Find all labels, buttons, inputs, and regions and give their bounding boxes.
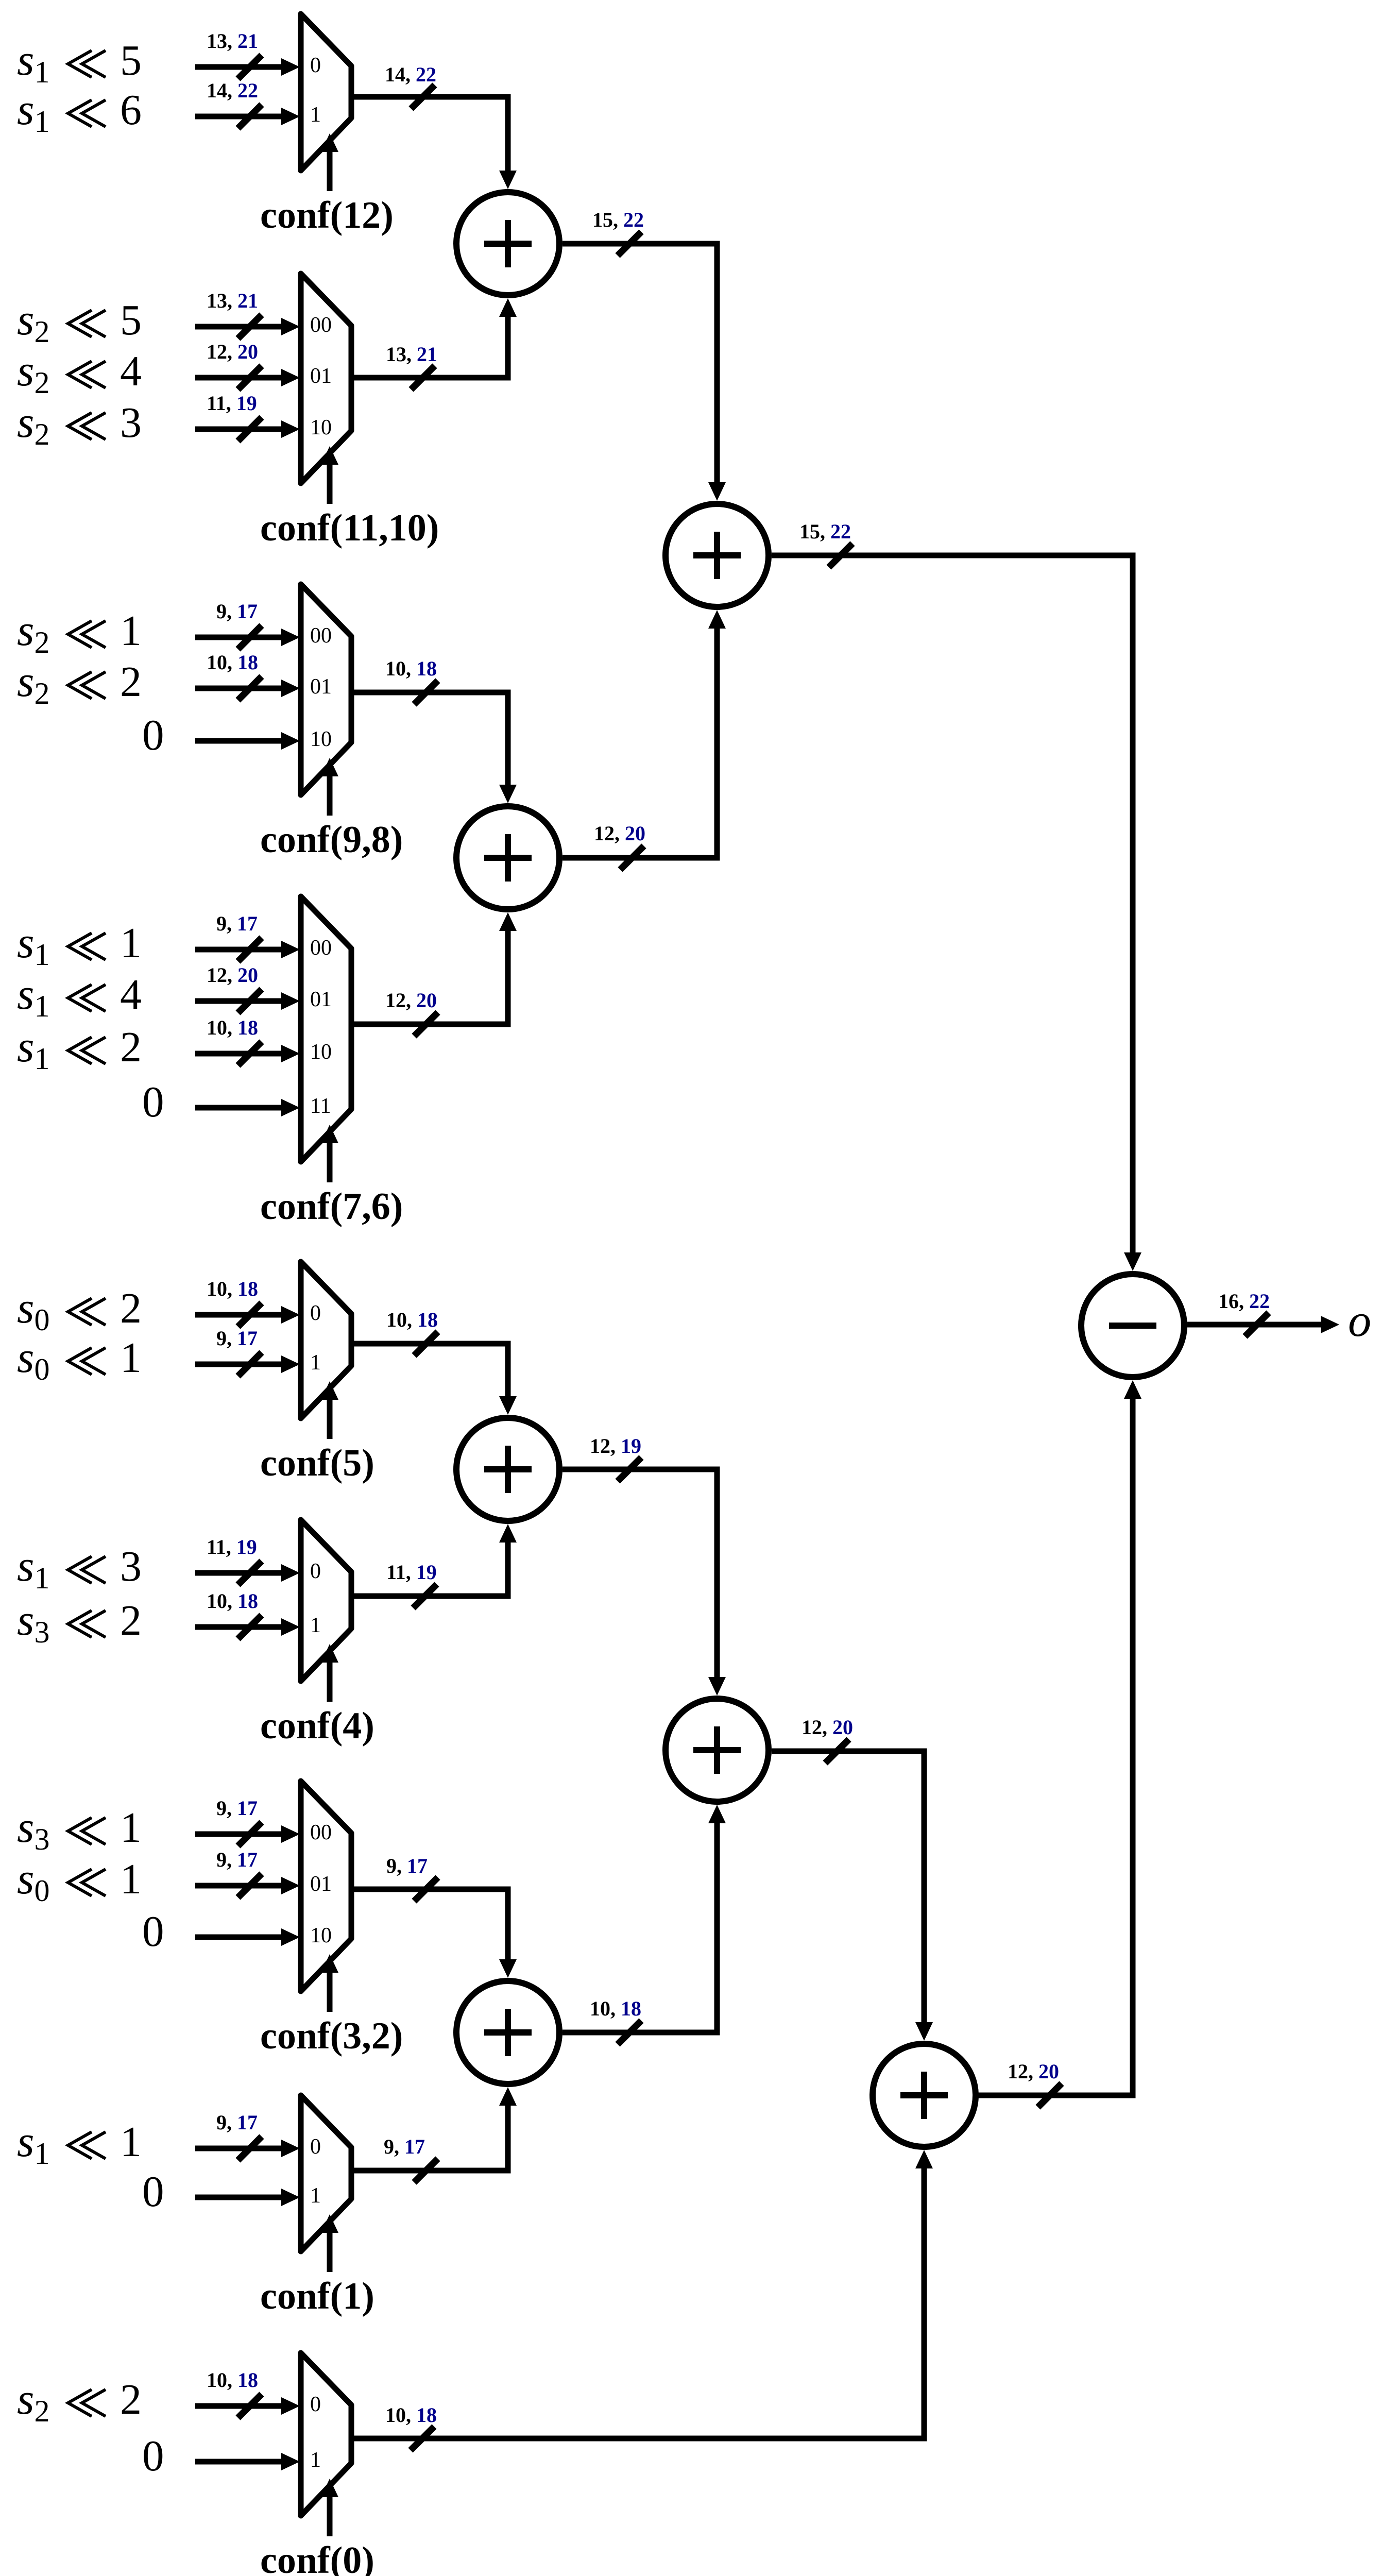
- bus slash input 1 of M3 conf(9,8): [238, 676, 262, 700]
- svg-text:s1: s1: [17, 84, 49, 139]
- mux M7 conf(3,2): [301, 1781, 351, 1991]
- svg-text:16, 22: 16, 22: [1218, 1290, 1270, 1313]
- svg-text:10: 10: [310, 416, 332, 439]
- svg-text:0: 0: [142, 2167, 164, 2216]
- wire input 2 of M7 conf(3,2): [195, 1935, 282, 1940]
- bus slash wire M5 out to A4 top: [414, 1332, 438, 1355]
- wire input 0 of M9 conf(0): [195, 2403, 282, 2409]
- bus slash input 0 of M7 conf(3,2): [238, 1822, 262, 1846]
- select input conf wire of M7 conf(3,2): [327, 1971, 333, 2012]
- adder A1: [456, 192, 559, 295]
- svg-text:2: 2: [120, 1284, 142, 1332]
- bus slash subtractor out: [1245, 1313, 1269, 1336]
- bus slash wire A3 out to A2 bottom: [620, 846, 644, 870]
- svg-text:9, 17: 9, 17: [216, 1327, 258, 1350]
- wire A3 out to A2 bottom: [562, 625, 717, 858]
- bus slash wire M8 out to A6 bottom: [414, 2159, 438, 2182]
- svg-text:13, 21: 13, 21: [386, 343, 437, 366]
- bus slash wire M3 out to A3 top: [414, 681, 438, 704]
- svg-text:s1: s1: [17, 35, 49, 89]
- wire input 3 of M4 conf(7,6): [195, 1105, 282, 1111]
- select input conf wire of M8 conf(1): [327, 2231, 333, 2272]
- svg-text:conf(4): conf(4): [260, 1705, 374, 1747]
- wire input 0 of M4 conf(7,6): [195, 947, 282, 953]
- svg-text:s2: s2: [17, 605, 49, 659]
- svg-text:12, 20: 12, 20: [207, 963, 258, 987]
- svg-text:o: o: [1348, 1295, 1371, 1346]
- select input conf wire of M6 conf(4): [327, 1660, 333, 1702]
- svg-text:0: 0: [142, 711, 164, 759]
- svg-text:11, 19: 11, 19: [207, 392, 257, 415]
- select input conf wire of M4 conf(7,6): [327, 1141, 333, 1182]
- bus slash wire A7 out to subtractor bottom: [1038, 2083, 1062, 2107]
- svg-text:2: 2: [120, 2376, 142, 2424]
- svg-text:00: 00: [310, 936, 332, 960]
- svg-text:15, 22: 15, 22: [799, 520, 851, 543]
- wire M8 out to A6 bottom: [351, 2103, 508, 2171]
- bus slash input 1 of M5 conf(5): [238, 1352, 262, 1376]
- svg-text:1: 1: [120, 1334, 142, 1382]
- svg-text:00: 00: [310, 624, 332, 648]
- svg-text:s2: s2: [17, 397, 49, 451]
- svg-text:6: 6: [120, 86, 142, 134]
- select input conf wire of M3 conf(9,8): [327, 774, 333, 816]
- svg-text:00: 00: [310, 1821, 332, 1844]
- bus slash input 1 of M7 conf(3,2): [238, 1874, 262, 1897]
- bus slash wire A2 out to subtractor top: [829, 544, 853, 567]
- wire subtractor out to o: [1187, 1322, 1324, 1328]
- svg-text:9, 17: 9, 17: [216, 600, 258, 623]
- bus slash input 0 of M1 conf(12): [238, 55, 262, 79]
- svg-text:12, 20: 12, 20: [802, 1716, 853, 1739]
- wire input 2 of M2 conf(11,10): [195, 427, 282, 432]
- svg-text:conf(1): conf(1): [260, 2275, 374, 2317]
- select input conf wire of M1 conf(12): [327, 150, 333, 191]
- mux M9 conf(0): [301, 2353, 351, 2516]
- wire input 1 of M1 conf(12): [195, 114, 282, 120]
- svg-text:1: 1: [120, 919, 142, 967]
- bus slash wire M1 out to A1 top: [411, 85, 435, 109]
- svg-text:4: 4: [120, 347, 142, 395]
- svg-text:10, 18: 10, 18: [590, 1997, 641, 2020]
- svg-text:9, 17: 9, 17: [216, 1797, 258, 1820]
- svg-text:2: 2: [120, 1597, 142, 1645]
- svg-text:conf(0): conf(0): [260, 2539, 374, 2576]
- svg-text:9, 17: 9, 17: [386, 1854, 428, 1877]
- svg-text:11: 11: [310, 1094, 331, 1118]
- svg-text:9, 17: 9, 17: [384, 2135, 425, 2158]
- svg-text:9, 17: 9, 17: [216, 912, 258, 935]
- wire A6 out to A5 bottom: [562, 1820, 717, 2032]
- bus slash input 1 of M4 conf(7,6): [238, 989, 262, 1013]
- svg-text:s1: s1: [17, 2116, 49, 2171]
- svg-text:14, 22: 14, 22: [207, 79, 258, 102]
- bus slash input 0 of M5 conf(5): [238, 1303, 262, 1327]
- adder A2: [666, 504, 769, 607]
- select input conf wire of M5 conf(5): [327, 1398, 333, 1439]
- wire input 2 of M4 conf(7,6): [195, 1051, 282, 1057]
- svg-text:4: 4: [120, 971, 142, 1019]
- svg-text:01: 01: [310, 675, 332, 699]
- bus slash input 2 of M4 conf(7,6): [238, 1042, 262, 1065]
- bus slash input 1 of M6 conf(4): [238, 1615, 262, 1639]
- svg-text:01: 01: [310, 988, 332, 1011]
- wire input 2 of M3 conf(9,8): [195, 738, 282, 744]
- bus slash input 2 of M2 conf(11,10): [238, 417, 262, 441]
- wire A4 out to A5 top: [562, 1469, 717, 1680]
- svg-text:13, 21: 13, 21: [207, 29, 258, 53]
- bus slash input 0 of M6 conf(4): [238, 1561, 262, 1585]
- wire M9 out to A7 bottom: [351, 2165, 924, 2438]
- wire M3 out to A3 top: [351, 692, 508, 788]
- svg-text:1: 1: [120, 2118, 142, 2166]
- svg-text:s0: s0: [17, 1854, 49, 1908]
- svg-text:14, 22: 14, 22: [385, 63, 436, 86]
- wire input 0 of M8 conf(1): [195, 2146, 282, 2151]
- svg-text:3: 3: [120, 399, 142, 447]
- svg-text:10, 18: 10, 18: [385, 657, 437, 680]
- svg-text:s1: s1: [17, 1541, 49, 1595]
- wire input 0 of M7 conf(3,2): [195, 1832, 282, 1837]
- adder A7: [873, 2044, 976, 2147]
- bus slash wire M7 out to A6 top: [414, 1877, 438, 1901]
- bus slash input 1 of M1 conf(12): [238, 105, 262, 128]
- wire input 1 of M9 conf(0): [195, 2459, 282, 2465]
- svg-text:conf(11,10): conf(11,10): [260, 507, 439, 549]
- subtractor U1: [1081, 1274, 1184, 1377]
- wire input 0 of M2 conf(11,10): [195, 324, 282, 330]
- svg-text:0: 0: [142, 1907, 164, 1956]
- svg-text:12, 19: 12, 19: [590, 1434, 641, 1458]
- bus slash wire A6 out to A5 bottom: [618, 2021, 641, 2044]
- svg-text:conf(5): conf(5): [260, 1442, 374, 1484]
- svg-text:1: 1: [120, 607, 142, 655]
- svg-text:1: 1: [310, 2448, 321, 2472]
- svg-text:1: 1: [120, 1855, 142, 1903]
- wire input 1 of M5 conf(5): [195, 1362, 282, 1367]
- svg-text:1: 1: [120, 1804, 142, 1852]
- svg-text:2: 2: [120, 658, 142, 706]
- wire input 1 of M8 conf(1): [195, 2195, 282, 2200]
- svg-text:s2: s2: [17, 2374, 49, 2428]
- svg-text:s0: s0: [17, 1283, 49, 1337]
- svg-text:s3: s3: [17, 1595, 49, 1649]
- svg-text:2: 2: [120, 1023, 142, 1071]
- select input conf wire of M2 conf(11,10): [327, 463, 333, 504]
- bus slash wire A4 out to A5 top: [618, 1458, 641, 1481]
- adder A6: [456, 1981, 559, 2084]
- svg-text:10, 18: 10, 18: [386, 1308, 438, 1331]
- svg-text:1: 1: [310, 103, 321, 127]
- svg-text:s0: s0: [17, 1332, 49, 1386]
- svg-text:10: 10: [310, 1040, 332, 1064]
- wire input 1 of M6 conf(4): [195, 1624, 282, 1630]
- svg-text:10, 18: 10, 18: [385, 2403, 437, 2427]
- wire A5 out to A7 top: [772, 1751, 924, 2025]
- svg-text:s1: s1: [17, 969, 49, 1023]
- wire input 1 of M2 conf(11,10): [195, 375, 282, 381]
- wire input 0 of M3 conf(9,8): [195, 635, 282, 640]
- wire input 0 of M5 conf(5): [195, 1312, 282, 1318]
- svg-text:5: 5: [120, 37, 142, 84]
- svg-text:12, 20: 12, 20: [1008, 2060, 1059, 2083]
- svg-text:s3: s3: [17, 1802, 49, 1856]
- mux M6 conf(4): [301, 1520, 351, 1681]
- svg-text:10, 18: 10, 18: [207, 2368, 258, 2392]
- svg-text:15, 22: 15, 22: [592, 208, 644, 231]
- wire M4 out to A3 bottom: [351, 928, 508, 1024]
- mux M2 conf(11,10): [301, 274, 351, 483]
- wire A1 out to A2 top: [562, 244, 717, 485]
- svg-text:1: 1: [310, 2184, 321, 2208]
- svg-text:11, 19: 11, 19: [386, 1561, 437, 1584]
- bus slash wire M2 out to A1 bottom: [411, 366, 435, 389]
- svg-text:01: 01: [310, 364, 332, 388]
- wire A7 out to subtractor bottom: [978, 1396, 1133, 2095]
- wire input 1 of M7 conf(3,2): [195, 1883, 282, 1889]
- bus slash input 0 of M8 conf(1): [238, 2137, 262, 2160]
- bus slash input 0 of M3 conf(9,8): [238, 625, 262, 649]
- svg-text:0: 0: [310, 1301, 321, 1325]
- svg-text:s1: s1: [17, 918, 49, 972]
- mux M4 conf(7,6): [301, 896, 351, 1162]
- mux M5 conf(5): [301, 1262, 351, 1418]
- bus slash wire A1 out to A2 top: [618, 232, 641, 256]
- svg-text:10: 10: [310, 1924, 332, 1947]
- bus slash wire M4 out to A3 bottom: [414, 1012, 438, 1036]
- wire M5 out to A4 top: [351, 1344, 508, 1399]
- wire M2 out to A1 bottom: [351, 314, 508, 378]
- bus slash input 0 of M2 conf(11,10): [238, 315, 262, 338]
- bus slash input 0 of M4 conf(7,6): [238, 938, 262, 961]
- adder A4: [456, 1418, 559, 1521]
- svg-text:1: 1: [310, 1351, 321, 1375]
- mux M1 conf(12): [301, 14, 351, 171]
- mux M8 conf(1): [301, 2095, 351, 2251]
- svg-text:s1: s1: [17, 1022, 49, 1076]
- svg-text:0: 0: [142, 2432, 164, 2480]
- wire input 1 of M4 conf(7,6): [195, 998, 282, 1004]
- svg-text:10, 18: 10, 18: [207, 1277, 258, 1300]
- bus slash wire M9 out to A7 bottom: [411, 2427, 434, 2450]
- svg-text:10, 18: 10, 18: [207, 1016, 258, 1039]
- svg-text:0: 0: [310, 54, 321, 77]
- svg-text:12, 20: 12, 20: [207, 340, 258, 363]
- svg-text:5: 5: [120, 296, 142, 344]
- adder A5: [666, 1699, 769, 1802]
- svg-text:s2: s2: [17, 346, 49, 400]
- bus slash input 1 of M2 conf(11,10): [238, 366, 262, 389]
- svg-text:11, 19: 11, 19: [207, 1535, 257, 1558]
- svg-text:s2: s2: [17, 656, 49, 710]
- svg-text:s2: s2: [17, 295, 49, 349]
- svg-text:12, 20: 12, 20: [385, 989, 437, 1012]
- wire input 1 of M3 conf(9,8): [195, 686, 282, 691]
- svg-text:0: 0: [310, 2135, 321, 2159]
- bus slash wire M6 out to A4 bottom: [413, 1584, 437, 1608]
- svg-text:conf(3,2): conf(3,2): [260, 2015, 403, 2057]
- svg-text:1: 1: [310, 1614, 321, 1637]
- wire input 0 of M6 conf(4): [195, 1570, 282, 1576]
- svg-text:10: 10: [310, 727, 332, 751]
- svg-text:0: 0: [142, 1078, 164, 1126]
- svg-text:12, 20: 12, 20: [594, 822, 645, 845]
- wire M7 out to A6 top: [351, 1889, 508, 1962]
- svg-text:13, 21: 13, 21: [207, 289, 258, 312]
- svg-text:0: 0: [310, 1560, 321, 1583]
- svg-text:00: 00: [310, 313, 332, 337]
- select input conf wire of M9 conf(0): [327, 2495, 333, 2536]
- svg-text:3: 3: [120, 1543, 142, 1590]
- svg-text:0: 0: [310, 2393, 321, 2416]
- wire input 0 of M1 conf(12): [195, 64, 282, 70]
- svg-text:10, 18: 10, 18: [207, 651, 258, 674]
- wire M6 out to A4 bottom: [351, 1539, 508, 1596]
- svg-text:conf(7,6): conf(7,6): [260, 1185, 403, 1228]
- svg-text:9, 17: 9, 17: [216, 1848, 258, 1871]
- svg-text:conf(9,8): conf(9,8): [260, 819, 403, 861]
- bus slash input 0 of M9 conf(0): [238, 2394, 262, 2418]
- svg-text:01: 01: [310, 1872, 332, 1896]
- mux M3 conf(9,8): [301, 584, 351, 795]
- wire M1 out to A1 top: [351, 97, 508, 174]
- wire A2 out to subtractor top: [772, 555, 1133, 1256]
- svg-text:conf(12): conf(12): [260, 194, 394, 236]
- svg-text:10, 18: 10, 18: [207, 1589, 258, 1613]
- bus slash wire A5 out to A7 top: [825, 1739, 849, 1763]
- svg-text:9, 17: 9, 17: [216, 2111, 258, 2134]
- adder A3: [456, 806, 559, 909]
